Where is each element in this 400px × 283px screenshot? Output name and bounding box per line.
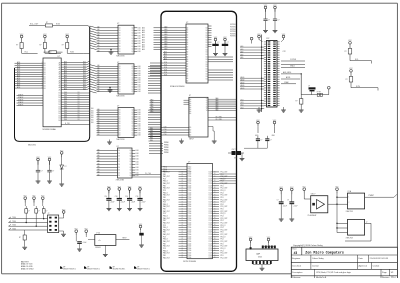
svg-text:D0: D0 [44,83,46,85]
svg-text:U?: U? [117,106,119,108]
svg-text:D0: D0 [206,49,208,51]
svg-text:PB1: PB1 [163,209,166,211]
svg-text:Q0: Q0 [131,135,133,137]
svg-text:D00: D00 [138,119,141,121]
svg-text:PC3: PC3 [163,225,166,227]
svg-text:PB4_O: PB4_O [163,227,169,229]
svg-text:D0: D0 [119,132,121,134]
svg-text:D00: D00 [136,161,139,163]
svg-text:D00: D00 [136,167,139,169]
svg-text:Q0: Q0 [131,123,133,125]
svg-text:+10uF: +10uF [83,242,87,244]
svg-text:CC08: CC08 [208,181,212,183]
svg-text:D0: D0 [44,67,46,69]
svg-text:Q0: Q0 [131,119,133,121]
svg-text:CC08: CC08 [208,232,212,234]
svg-text:CAP: CAP [256,253,261,256]
svg-text:PD1: PD1 [221,220,224,222]
svg-text:74HC573N: 74HC573N [116,96,125,98]
svg-text:C?: C? [268,20,270,22]
svg-text:Q0: Q0 [129,170,131,172]
svg-text:PD1: PD1 [221,232,224,234]
svg-text:GND2: GND2 [258,257,262,259]
svg-text:PB1: PB1 [163,174,166,176]
svg-text:PC3: PC3 [163,178,166,180]
svg-text:D0: D0 [78,103,80,105]
svg-text:D00: D00 [91,120,94,122]
svg-text:CC08: CC08 [208,188,212,190]
svg-text:D00: D00 [138,30,141,32]
svg-text:#3: #3 [294,251,298,255]
svg-text:D0: D0 [118,158,120,160]
svg-text:D0: D0 [119,82,121,84]
svg-text:M?: M? [137,266,139,268]
svg-text:Q0: Q0 [131,84,133,86]
svg-text:CC08: CC08 [208,197,212,199]
svg-text:R? R?: R? R? [317,92,321,94]
svg-text:CC08: CC08 [208,255,212,257]
svg-text:Q0: Q0 [131,43,133,45]
svg-text:D0: D0 [119,121,121,123]
svg-text:D0: D0 [119,38,121,40]
svg-text:R?: R? [345,51,347,53]
svg-text:D0: D0 [119,75,121,77]
svg-text:PD1: PD1 [221,197,224,199]
svg-text:CC08: CC08 [208,241,212,243]
svg-text:D0: D0 [206,57,208,59]
svg-text:D0: D0 [206,78,208,80]
svg-text:D0: D0 [44,79,46,81]
svg-text:PC0_OUT: PC0_OUT [221,218,228,220]
svg-text:PB1: PB1 [163,197,166,199]
svg-text:D00: D00 [138,112,141,114]
svg-text:PD3_O: PD3_O [221,236,227,238]
svg-text:D00: D00 [138,132,141,134]
svg-text:D0: D0 [119,89,121,91]
svg-text:Y0: Y0 [206,101,208,103]
svg-text:Q0: Q0 [131,128,133,130]
svg-text:D0: D0 [119,77,121,79]
svg-text:CC08: CC08 [208,227,212,229]
svg-text:Y0: Y0 [206,99,208,101]
svg-text:D00: D00 [136,150,139,152]
svg-text:PWM?: PWM? [369,195,374,197]
svg-text:D00: D00 [138,43,141,45]
svg-text:D00: D00 [138,77,141,79]
svg-text:KCL_OUT: KCL_OUT [30,24,39,26]
svg-text:D0: D0 [206,52,208,54]
svg-text:CC08: CC08 [208,204,212,206]
svg-text:B0: B0 [189,135,191,137]
svg-text:D00: D00 [91,110,94,112]
svg-text:C?: C? [41,170,43,172]
svg-text:Cohen Sorby: Cohen Sorby [312,258,324,260]
svg-text:D0: D0 [78,101,80,103]
svg-text:D0: D0 [78,108,80,110]
svg-text:Q0: Q0 [129,161,131,163]
svg-text:C10: C10 [104,196,107,198]
svg-text:+C+: +C+ [98,240,101,242]
svg-text:D0: D0 [119,84,121,86]
svg-text:Y0: Y0 [206,108,208,110]
svg-text:Q0: Q0 [131,68,133,70]
svg-text:Q0: Q0 [131,121,133,123]
svg-text:CC08: CC08 [208,206,212,208]
svg-text:PC0_OUT: PC0_OUT [221,253,228,255]
svg-text:PC2_OUT: PC2_OUT [221,246,228,248]
svg-text:Q0: Q0 [131,41,133,43]
svg-text:M?: M? [113,266,115,268]
svg-text:CC08: CC08 [208,250,212,252]
svg-text:PD1: PD1 [221,209,224,211]
svg-text:KCL: KCL [25,51,28,53]
svg-text:Description: Description [292,271,302,274]
svg-text:U?: U? [117,146,119,148]
svg-text:D0: D0 [206,61,208,63]
svg-text:PC2_OUT: PC2_OUT [221,199,228,201]
svg-text:R?: R? [39,45,41,47]
svg-text:D0: D0 [119,110,121,112]
svg-text:D0: D0 [119,73,121,75]
svg-text:C?: C? [287,200,289,202]
svg-text:C?: C? [260,140,262,142]
svg-text:D00: D00 [91,108,94,110]
svg-text:PD1: PD1 [221,185,224,187]
svg-text:CC08: CC08 [208,174,212,176]
svg-text:21-03-2013 13:13:59: 21-03-2013 13:13:59 [370,258,389,260]
svg-text:B0: B0 [189,130,191,132]
svg-text:D00: D00 [64,94,67,96]
svg-text:PC0_OUT: PC0_OUT [221,171,228,173]
svg-text:D00: D00 [136,153,139,155]
svg-text:CC08: CC08 [208,213,212,215]
svg-text:CC08: CC08 [208,195,212,197]
svg-text:D0: D0 [59,102,61,104]
svg-text:R?: R? [19,237,21,239]
svg-text:PB4_O: PB4_O [163,181,169,183]
svg-text:D00: D00 [138,38,141,40]
svg-text:J? 0.3: J? 0.3 [96,233,100,235]
svg-text:Q0: Q0 [129,167,131,169]
svg-text:C?: C? [227,42,229,44]
svg-text:PB0: PB0 [150,135,153,137]
svg-text:PB4_O: PB4_O [163,192,169,194]
svg-text:Q0: Q0 [129,172,131,174]
svg-text:CC08: CC08 [208,257,212,259]
svg-text:PD1: PD1 [221,243,224,245]
svg-text:74HC?: 74HC? [189,139,194,141]
svg-text:R?: R? [296,101,298,103]
svg-text:D0: D0 [59,97,61,99]
svg-text:GND2: GND2 [290,66,295,68]
svg-text:GND: GND [234,158,237,160]
svg-text:MC68SEC000AA: MC68SEC000AA [43,128,57,131]
svg-text:D0: D0 [78,105,80,107]
svg-text:DQ0: DQ0 [164,69,167,71]
svg-text:D00: D00 [138,80,141,82]
svg-text:D0: D0 [59,111,61,113]
svg-text:D00: D00 [136,164,139,166]
svg-text:PC4: PC4 [221,239,224,241]
svg-text:R?: R? [16,45,18,47]
svg-text:CC08: CC08 [208,218,212,220]
svg-text:PC0_OUT: PC0_OUT [221,241,228,243]
svg-text:D00: D00 [138,130,141,132]
svg-text:D0: D0 [119,43,121,45]
svg-text:RY/BY0: RY/BY0 [230,36,235,38]
svg-text:CC08: CC08 [208,236,212,238]
svg-text:DQ0: DQ0 [164,64,167,66]
svg-text:S29AL016J70FA10: S29AL016J70FA10 [170,85,185,88]
svg-text:D0: D0 [206,44,208,46]
svg-text:+10uF: +10uF [293,206,297,208]
svg-text:D0: D0 [206,71,208,73]
svg-text:D00: D00 [138,49,141,51]
svg-text:D0: D0 [119,66,121,68]
svg-text:J?: J? [48,213,50,215]
svg-text:D00: D00 [138,66,141,68]
svg-text:Q0: Q0 [131,130,133,132]
svg-text:D0: D0 [118,172,120,174]
svg-text:C?: C? [278,20,280,22]
svg-text:Q0: Q0 [131,51,133,53]
svg-text:CC08: CC08 [208,199,212,201]
svg-text:C10: C10 [125,196,128,198]
svg-text:D0: D0 [119,87,121,89]
svg-text:RY/BY0: RY/BY0 [230,33,235,35]
svg-text:Cromot: Cromot [373,264,380,267]
svg-text:D00: D00 [138,135,141,137]
svg-text:Q0: Q0 [131,132,133,134]
svg-text:PC4: PC4 [221,250,224,252]
svg-text:D0: D0 [119,130,121,132]
svg-text:PD1: PD1 [221,255,224,257]
svg-text:PWM0: PWM0 [164,150,169,152]
svg-text:SC0: SC0 [241,107,244,109]
svg-text:D0: D0 [119,48,121,50]
svg-text:DQ0: DQ0 [164,74,167,76]
svg-text:Q0: Q0 [131,75,133,77]
svg-text:Q0: Q0 [129,175,131,177]
svg-text:D0: D0 [78,99,80,101]
svg-text:D0: D0 [118,170,120,172]
svg-text:CC08: CC08 [208,178,212,180]
svg-text:Y0: Y0 [206,104,208,106]
svg-text:D0: D0 [78,110,80,112]
svg-text:PB4_O: PB4_O [163,204,169,206]
svg-text:MOUNT HOLES 1: MOUNT HOLES 1 [137,268,150,270]
svg-text:PD3_O: PD3_O [221,225,227,227]
svg-text:D00: D00 [91,122,94,124]
svg-text:D00: D00 [64,119,67,121]
svg-text:D00: D00 [64,114,67,116]
svg-text:D0: D0 [118,164,120,166]
svg-text:D0: D0 [206,54,208,56]
svg-text:MOUNT HOLES 1: MOUNT HOLES 1 [87,268,100,270]
svg-text:D0: D0 [118,161,120,163]
svg-text:Drwcheck: Drwcheck [292,265,301,267]
svg-text:D00: D00 [64,117,67,119]
svg-text:E_CLK: E_CLK [65,123,70,125]
svg-text:CC08: CC08 [208,222,212,224]
svg-text:D0: D0 [206,35,208,37]
svg-text:ANALOG GND2: ANALOG GND2 [21,267,34,270]
svg-text:CC08: CC08 [208,253,212,255]
svg-text:Q0: Q0 [129,150,131,152]
svg-text:PB4_O: PB4_O [163,250,169,252]
svg-text:+10uF: +10uF [283,206,287,208]
svg-text:+10uF: +10uF [141,202,145,204]
svg-text:CCCND: CCCND [290,59,297,61]
svg-text:D?: D? [65,166,67,168]
svg-text:Copyright(C) 2014 Cohen Sorby: Copyright(C) 2014 Cohen Sorby [293,244,324,247]
svg-text:PB1: PB1 [163,243,166,245]
svg-text:D00: D00 [138,82,141,84]
svg-text:M?: M? [63,266,65,268]
svg-text:CC08: CC08 [208,183,212,185]
svg-text:Q0: Q0 [131,70,133,72]
svg-text:CL_CLG: CL_CLG [145,173,152,175]
svg-text:D0: D0 [119,30,121,32]
svg-text:D0: D0 [119,119,121,121]
svg-text:D0: D0 [206,66,208,68]
svg-text:D0: D0 [59,106,61,108]
svg-text:D00: D00 [64,108,67,110]
svg-text:PC2_OUT: PC2_OUT [221,211,228,213]
svg-text:D0: D0 [78,119,80,121]
svg-text:D0: D0 [119,51,121,53]
svg-text:D0: D0 [206,59,208,61]
svg-text:M?: M? [87,266,89,268]
svg-text:PB1: PB1 [163,232,166,234]
svg-text:PC2_OUT: PC2_OUT [221,234,228,236]
svg-text:C?: C? [52,170,54,172]
svg-text:74HC?08: 74HC?08 [346,238,353,240]
svg-text:Q0: Q0 [131,116,133,118]
svg-text:D00: D00 [138,123,141,125]
svg-text:D0: D0 [59,120,61,122]
svg-text:PC4: PC4 [221,192,224,194]
svg-text:KBDCON0: KBDCON0 [28,145,36,147]
svg-text:D00: D00 [136,158,139,160]
svg-text:CC08: CC08 [208,225,212,227]
svg-text:D0: D0 [59,115,61,117]
svg-text:D0: D0 [119,68,121,70]
svg-text:Q0: Q0 [131,82,133,84]
svg-text:D00: D00 [136,172,139,174]
svg-text:CC08: CC08 [208,239,212,241]
svg-text:Q0: Q0 [131,46,133,48]
svg-text:D00: D00 [64,99,67,101]
svg-text:Q0: Q0 [131,114,133,116]
svg-text:Q0: Q0 [131,66,133,68]
svg-text:Zen Micro Computers: Zen Micro Computers [305,250,344,255]
svg-text:CN?: CN? [266,38,269,40]
svg-text:Y0: Y0 [206,110,208,112]
svg-text:D00: D00 [91,113,94,115]
svg-text:D0: D0 [119,135,121,137]
svg-text:Q0: Q0 [131,48,133,50]
svg-text:CC08: CC08 [208,192,212,194]
svg-text:D00: D00 [138,73,141,75]
svg-text:D0: D0 [119,27,121,29]
svg-text:CC08: CC08 [208,202,212,204]
svg-text:D0: D0 [206,32,208,34]
svg-text:OSC?: OSC? [311,194,316,196]
svg-text:D0: D0 [59,109,61,111]
svg-text:PD3_O: PD3_O [221,190,227,192]
svg-text:Q0: Q0 [131,30,133,32]
svg-text:Q0: Q0 [131,77,133,79]
svg-text:D0: D0 [118,153,120,155]
svg-text:Q0: Q0 [131,27,133,29]
svg-text:C?: C? [217,42,219,44]
svg-text:RD_WR0: RD_WR0 [216,116,222,118]
svg-text:D00: D00 [138,41,141,43]
svg-text:D00: D00 [138,46,141,48]
svg-text:D0: D0 [59,93,61,95]
svg-text:D00: D00 [138,33,141,35]
svg-text:C10: C10 [115,196,118,198]
svg-text:D0: D0 [78,117,80,119]
svg-text:Q0: Q0 [131,35,133,37]
svg-text:D0: D0 [78,92,80,94]
svg-text:D0: D0 [44,65,46,67]
svg-text:DSTN-TKS0080: DSTN-TKS0080 [183,261,196,263]
svg-text:DQ0: DQ0 [164,67,167,69]
svg-text:PC3: PC3 [163,248,166,250]
svg-text:Y0: Y0 [206,103,208,105]
svg-text:PB1: PB1 [163,220,166,222]
svg-text:CPU,Flash,CTL,SP Card and glue: CPU,Flash,CTL,SP Card and glue logic [316,272,351,274]
svg-text:PB0: PB0 [150,137,153,139]
svg-text:TXD0: TXD0 [12,217,16,219]
svg-text:C?: C? [28,211,30,213]
svg-text:D00: D00 [64,110,67,112]
svg-text:D00: D00 [64,96,67,98]
svg-text:D0: D0 [206,30,208,32]
svg-text:PC3: PC3 [163,213,166,215]
svg-text:D0: D0 [206,47,208,49]
svg-text:Q0: Q0 [131,110,133,112]
svg-text:CS0: CS0 [164,134,167,136]
svg-text:CC08: CC08 [208,171,212,173]
svg-text:C?: C? [277,200,279,202]
svg-text:D0: D0 [44,81,46,83]
svg-text:D00: D00 [138,68,141,70]
svg-text:D00: D00 [138,75,141,77]
svg-text:SC0: SC0 [241,105,244,107]
svg-text:D0: D0 [59,118,61,120]
svg-text:CC08: CC08 [208,243,212,245]
svg-text:74HC573N: 74HC573N [116,139,125,141]
svg-text:D0: D0 [206,76,208,78]
svg-text:D0: D0 [78,114,80,116]
svg-text:D0: D0 [119,70,121,72]
svg-text:D0: D0 [118,175,120,177]
svg-text:D0: D0 [206,28,208,30]
svg-text:D00: D00 [64,101,67,103]
svg-text:C22: C22 [283,51,286,53]
svg-text:D0: D0 [119,80,121,82]
svg-text:D00: D00 [138,71,141,73]
svg-text:PB0: PB0 [150,140,153,142]
svg-text:D?: D? [308,85,310,87]
svg-text:D0: D0 [59,104,61,106]
svg-text:D0: D0 [118,167,120,169]
svg-text:D0: D0 [78,112,80,114]
svg-text:SC0: SC0 [241,102,244,104]
